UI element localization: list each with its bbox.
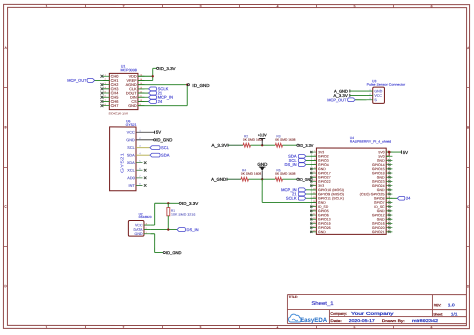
svg-text:GND: GND	[318, 230, 326, 234]
svg-text:SCL: SCL	[127, 146, 134, 150]
svg-text:GY521: GY521	[126, 123, 137, 127]
svg-text:mir892342: mir892342	[412, 318, 439, 323]
svg-text:EasyEDA: EasyEDA	[300, 317, 327, 324]
svg-text:ID_3.3V: ID_3.3V	[182, 201, 199, 206]
svg-text:5V: 5V	[156, 130, 161, 135]
svg-text:1.0: 1.0	[448, 303, 455, 307]
svg-text:1/1: 1/1	[451, 312, 458, 316]
svg-text:ID_GND: ID_GND	[166, 250, 182, 255]
svg-text:24: 24	[406, 196, 411, 201]
svg-text:5V: 5V	[403, 150, 408, 155]
svg-text:GND: GND	[126, 138, 135, 142]
svg-text:2: 2	[123, 4, 125, 8]
svg-text:+3.3V: +3.3V	[258, 132, 267, 137]
svg-text:TITLE:: TITLE:	[289, 295, 298, 299]
svg-text:DS_IN: DS_IN	[285, 162, 297, 167]
svg-text:ID_GND: ID_GND	[156, 137, 172, 142]
svg-text:VCC: VCC	[135, 223, 143, 227]
svg-text:SDA: SDA	[127, 153, 135, 157]
svg-text:ID_3.3V: ID_3.3V	[299, 143, 313, 148]
svg-text:SDA: SDA	[161, 153, 170, 158]
svg-text:B: B	[5, 125, 7, 129]
svg-text:GND: GND	[257, 162, 267, 167]
svg-text:1: 1	[46, 4, 48, 8]
svg-text:SCL: SCL	[161, 145, 170, 150]
svg-text:0K SMD 1608: 0K SMD 1608	[241, 172, 262, 176]
svg-text:0K SMD 1608: 0K SMD 1608	[275, 172, 296, 176]
svg-text:GND: GND	[135, 232, 143, 236]
svg-text:5: 5	[354, 4, 356, 8]
svg-text:Sheet_1: Sheet_1	[311, 301, 333, 307]
svg-text:GY521: GY521	[119, 152, 124, 173]
svg-text:Company:: Company:	[330, 312, 347, 316]
svg-text:MCP3008: MCP3008	[120, 68, 136, 72]
svg-text:GND: GND	[128, 104, 137, 108]
svg-text:DS18B20: DS18B20	[139, 215, 152, 219]
svg-text:ID_GND: ID_GND	[192, 83, 209, 88]
svg-text:4: 4	[277, 4, 279, 8]
svg-text:XCL: XCL	[127, 169, 134, 173]
svg-text:Date:: Date:	[330, 319, 341, 323]
svg-text:INT: INT	[129, 184, 136, 188]
svg-text:Your Company: Your Company	[351, 311, 394, 316]
svg-text:RASPBERRY_PI_4_shield: RASPBERRY_PI_4_shield	[350, 140, 392, 144]
svg-text:Pulse Sensor Connector: Pulse Sensor Connector	[367, 83, 407, 87]
svg-text:A_GND: A_GND	[211, 177, 226, 182]
svg-text:GPIO21: GPIO21	[372, 230, 385, 234]
svg-text:MCP_OUT: MCP_OUT	[327, 97, 347, 102]
svg-text:10K SMD 3216: 10K SMD 3216	[171, 213, 196, 217]
svg-text:SCLK: SCLK	[286, 196, 297, 201]
svg-text:B: B	[467, 126, 469, 130]
svg-text:0K SMD 1608: 0K SMD 1608	[275, 138, 296, 142]
svg-text:2020-05-17: 2020-05-17	[349, 318, 376, 323]
svg-text:A_3.3V: A_3.3V	[211, 143, 227, 148]
svg-text:DS_IN: DS_IN	[187, 227, 199, 232]
svg-text:SOIC16-150: SOIC16-150	[109, 111, 129, 115]
svg-text:Sheet:: Sheet:	[433, 312, 443, 316]
svg-text:AD0: AD0	[127, 176, 134, 180]
svg-text:ID_3.3V: ID_3.3V	[159, 66, 176, 71]
svg-text:3: 3	[200, 4, 202, 8]
svg-text:CH7: CH7	[111, 103, 119, 108]
svg-text:6: 6	[431, 5, 433, 9]
svg-text:XDA: XDA	[127, 161, 135, 165]
svg-text:MCP_OUT: MCP_OUT	[67, 78, 87, 83]
svg-text:Drawn By:: Drawn By:	[382, 319, 405, 323]
svg-text:VCC: VCC	[127, 131, 135, 135]
svg-text:24: 24	[158, 99, 163, 104]
svg-text:REV:: REV:	[434, 303, 442, 307]
